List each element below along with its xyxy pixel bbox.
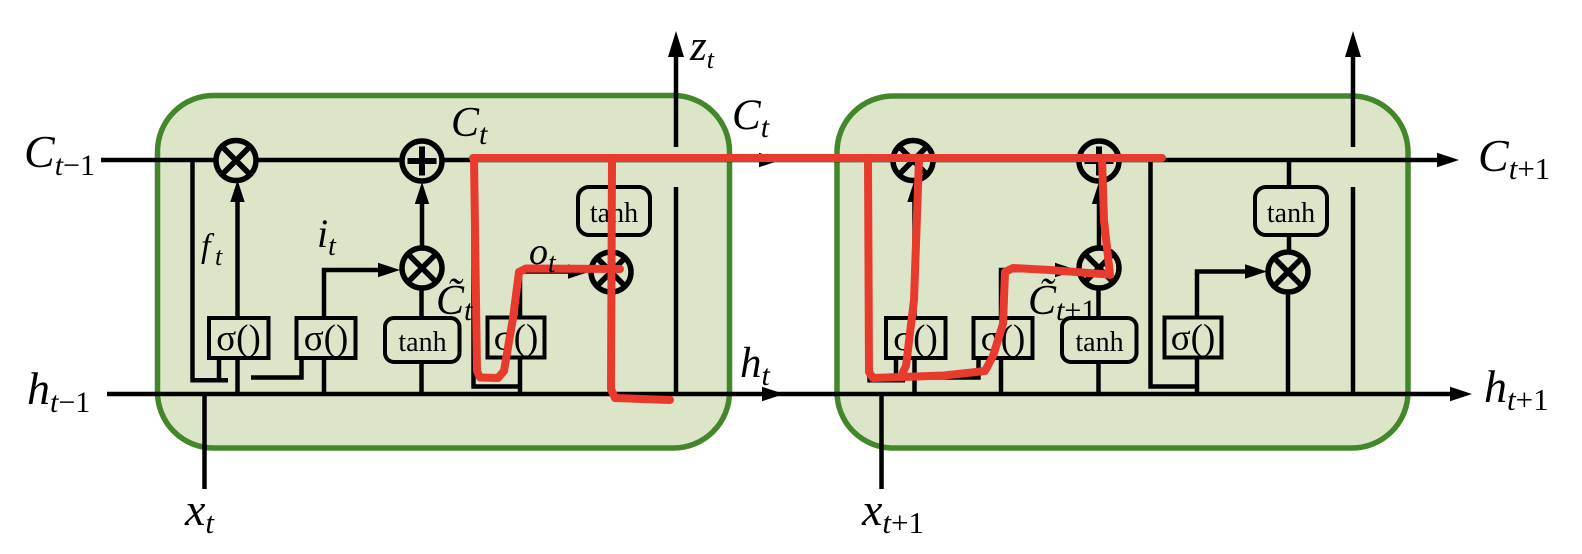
box: output sigma sigma() (cell 2) — [1165, 318, 1222, 358]
wire: jog below input sigma box (cell 2) — [928, 359, 981, 378]
box: forget sigma sigma() (cell 2) — [886, 318, 946, 358]
wire: cell-state tanh down into output gate (cell 2) — [1287, 235, 1292, 252]
svg-text:ht: ht — [740, 340, 771, 392]
wire: hidden-state h line across both cells — [107, 392, 1454, 397]
svg-text:xt: xt — [184, 484, 215, 540]
wire: output sigma up + arrow into output gate, o_t (cell 1) — [520, 272, 568, 318]
svg-text:xt+1: xt+1 — [861, 484, 924, 540]
wire: cell-state C line across both cells — [101, 158, 1441, 163]
wire: candidate tanh up to input gate (cell 2) — [1096, 287, 1101, 318]
wire: z output arrow (cell 1) — [674, 54, 679, 147]
wire: C-line peephole down to output sigma (cell 1) — [471, 160, 520, 387]
wire: forget sigma output up to forget gate, f_t (cell 2) — [912, 200, 917, 318]
svg-text:σ(): σ() — [304, 318, 349, 359]
wire: h-line up into input sigma box (cell 1) — [322, 358, 327, 394]
wire: C-line branch down into cell-state tanh (cell 2) — [1287, 160, 1292, 190]
red highlight: forget gate drop (cell 2) — [903, 159, 919, 372]
wire: h-line up into forget sigma box (cell 1) — [235, 358, 240, 394]
wire: x input from below (cell 2) — [879, 394, 884, 489]
svg-text:zt: zt — [689, 23, 715, 74]
wire: x input from below (cell 1) — [202, 394, 207, 489]
wire: jog below input sigma box (cell 1) — [251, 359, 304, 378]
gate: forget multiply circle-x on C-line (cell 2) — [893, 141, 933, 181]
wire: C-line peephole down to output sigma (cell 2) — [1148, 160, 1197, 387]
red highlight: C_t through tanh and output gate down to h_t (cell 1) — [611, 158, 670, 400]
gate: add circle-plus on C-line (cell 1) — [402, 141, 442, 181]
gate: input multiply circle-x (cell 1) — [402, 248, 442, 288]
svg-text:tanh: tanh — [1075, 327, 1123, 358]
wire: h-line up into candidate tanh box (cell 1) — [419, 362, 424, 394]
svg-text:Ct+1: Ct+1 — [1478, 130, 1550, 186]
wire: input sigma up + arrow into input gate, i_t (cell 2) — [1001, 270, 1055, 318]
svg-text:σ(): σ() — [216, 318, 261, 359]
wire: h branch up to z output (cell 2) — [1351, 187, 1356, 394]
red highlight: C peephole down (cell 2) — [868, 158, 1108, 378]
box: input sigma sigma() (cell 1) — [297, 318, 356, 358]
svg-text:σ(): σ() — [893, 318, 938, 359]
svg-text:t: t — [215, 242, 223, 271]
gate: output multiply circle-x (cell 1) — [591, 252, 631, 292]
svg-text:ht−1: ht−1 — [27, 363, 90, 419]
svg-text:σ(): σ() — [1171, 318, 1216, 359]
arrowhead: C_t+1 output — [1437, 153, 1459, 167]
box: input sigma sigma() (cell 2) — [974, 318, 1033, 358]
arrowhead: h_t+1 output — [1450, 387, 1472, 401]
wire: h-line up into output sigma box (cell 2) — [1195, 358, 1200, 395]
wire: h-line up into input sigma box (cell 2) — [999, 358, 1004, 394]
svg-text:tanh: tanh — [1267, 198, 1315, 229]
gate: input multiply circle-x (cell 2) — [1079, 248, 1119, 288]
box: candidate tanh (cell 2) — [1062, 318, 1137, 362]
wire: input gate up arrow into add gate (cell 1) — [420, 203, 425, 249]
wire: C-line peephole to forget gate sigma (cell 2) — [867, 158, 905, 380]
LSTM cell body (cell 1) green rounded rect — [158, 96, 730, 449]
gate: forget multiply circle-x on C-line (cell 1) — [216, 141, 256, 181]
svg-text:Ct: Ct — [732, 92, 770, 144]
wire: input sigma up + arrow into input gate, i_t (cell 1) — [324, 270, 378, 318]
wire: output gate down to h-line (cell 2) — [1286, 292, 1291, 394]
box: candidate tanh (cell 1) — [385, 318, 460, 362]
wire: C-line branch down into cell-state tanh (cell 1) — [610, 160, 615, 190]
red highlight: gradient path along C line — [473, 154, 1162, 162]
svg-text:Ct−1: Ct−1 — [24, 126, 95, 182]
box: cell-state tanh above output gate (cell 2) — [1255, 187, 1327, 235]
wire: candidate tanh up to input gate (cell 1) — [419, 287, 424, 318]
wire: h-line up into forget sigma box (cell 2) — [912, 358, 917, 394]
arrowhead: h line into cell 2 — [762, 387, 784, 401]
wire: z output arrow (cell 2) — [1351, 54, 1356, 147]
red highlight: add gate down to input gate (cell 2) — [1102, 158, 1110, 275]
gate: output multiply circle-x (cell 2) — [1268, 252, 1308, 292]
arrowhead: C line into cell 2 — [759, 153, 781, 167]
wire: h branch up to z output (cell 1) — [674, 187, 679, 394]
wire: h-line up into output sigma box (cell 1) — [518, 358, 523, 395]
red highlight: C_t down through output sigma to o_t arrow (cell 1) — [474, 158, 620, 378]
wire: h-line up into candidate tanh box (cell 2) — [1096, 362, 1101, 394]
box: output sigma sigma() (cell 1) — [488, 318, 545, 358]
svg-text:tanh: tanh — [398, 327, 446, 358]
wire: input gate up arrow into add gate (cell 2) — [1097, 203, 1102, 249]
box: forget sigma sigma() (cell 1) — [209, 318, 269, 358]
gate: add circle-plus on C-line (cell 2) — [1079, 141, 1119, 181]
box: cell-state tanh above output gate (cell 1) — [578, 187, 650, 235]
wire: cell-state tanh down into output gate (cell 1) — [610, 235, 615, 252]
wire: output gate down to h-line (cell 1) — [609, 292, 614, 394]
wire: C-line peephole to forget gate sigma (cell 1) — [190, 158, 228, 380]
svg-text:ht+1: ht+1 — [1484, 361, 1549, 417]
LSTM cell body (cell 2) green rounded rect — [837, 96, 1408, 448]
wire: forget sigma output up to forget gate, f_t (cell 1) — [235, 200, 240, 318]
wire: output sigma up + arrow into output gate, o_t (cell 2) — [1197, 272, 1245, 318]
